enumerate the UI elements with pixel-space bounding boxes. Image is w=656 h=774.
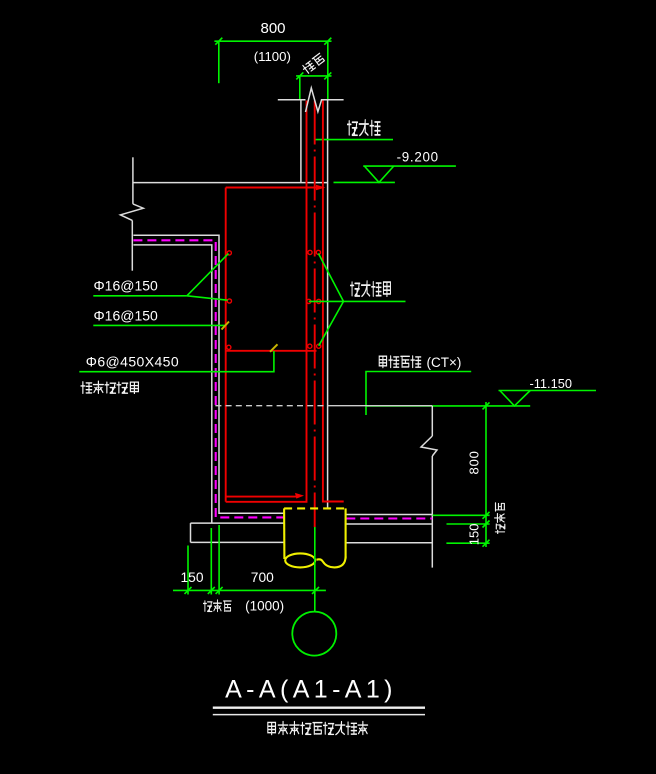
wall top cut line (left of break)	[278, 99, 306, 101]
elevation marker -11.150 symbol	[366, 391, 596, 406]
sump pit right wall (yellow)	[345, 508, 347, 558]
svg-text:800: 800	[260, 20, 285, 37]
rebar section dot (left cage, middle)	[227, 299, 231, 303]
left wall outer face (upper part)	[132, 157, 134, 204]
elevation marker -9.200 symbol	[334, 166, 456, 182]
svg-text:(CT×): (CT×)	[427, 355, 462, 370]
label 墙厚 (rotated)	[301, 53, 325, 74]
wall break zigzag	[306, 88, 322, 112]
rebar cage: top horizontal bar	[226, 187, 318, 189]
left wall break zigzag	[120, 204, 143, 221]
label 剪力墙 (shear wall)	[347, 120, 380, 136]
tie hook tick at end of Φ6 leader	[270, 344, 278, 352]
sump pit left wall (yellow)	[283, 508, 285, 559]
sump pit bottom ellipse (yellow)	[285, 553, 315, 567]
svg-text:A-A(A1-A1): A-A(A1-A1)	[225, 676, 397, 704]
right dimension 800/150: extension at slab top	[433, 514, 490, 516]
base slab top (left of pit)	[191, 522, 284, 524]
waterproof membrane right of pit (magenta dashed)	[346, 517, 432, 519]
label 防水层 (rotated, right side)	[495, 503, 505, 534]
dimension 墙厚: left extension line	[299, 76, 301, 99]
bottom dimension extension line (inner protective face)	[218, 525, 220, 595]
leader of second Φ16@150	[93, 324, 224, 326]
pit floor hidden line (dashed, inside wall)	[215, 405, 327, 407]
right dimension: extension at protective layer	[447, 523, 490, 525]
svg-text:150: 150	[180, 570, 203, 585]
rebar cage: top bar arrowhead	[316, 185, 326, 191]
wall centerline (red dash-dot)	[314, 101, 316, 528]
label 电梯底板 (CT×)	[379, 356, 421, 368]
leader of first Φ16@150	[93, 254, 228, 301]
upper shear wall outer face	[300, 100, 302, 183]
first floor slab top line	[133, 182, 327, 184]
right dimension: extension at slab bottom	[446, 542, 489, 544]
base slab top surface (right of pit)	[346, 514, 432, 516]
rebar section dot (left cage, top)	[227, 251, 231, 255]
pit centerline (green)	[314, 527, 316, 612]
rebar section dots (wall, middle pair)	[307, 299, 311, 303]
svg-text:Φ16@150: Φ16@150	[94, 308, 159, 324]
base slab bottom (left of pit)	[191, 541, 284, 543]
wall top cut line (right of break)	[321, 99, 344, 101]
dimension 800 top: right extension line	[327, 41, 329, 99]
label 剪力墙筋 (shear wall rebar)	[350, 281, 390, 296]
left wall outer face (lower part)	[131, 220, 133, 270]
rebar cage: left vertical bar	[225, 188, 227, 502]
svg-text:Φ16@150: Φ16@150	[94, 278, 159, 294]
leader of 剪力墙筋	[309, 253, 406, 345]
tie hook tick at end of second leader	[222, 322, 230, 330]
svg-text:-9.200: -9.200	[397, 149, 439, 164]
subtitle 用于上部有剪力墙处	[268, 721, 368, 734]
detail bubble circle	[292, 612, 336, 656]
leader of Φ6@450X450	[79, 351, 274, 372]
svg-text:-11.150: -11.150	[530, 376, 572, 391]
sump pit dashed top (yellow)	[284, 507, 346, 509]
title underline thin	[213, 714, 425, 716]
bottom dimension line with ticks	[173, 587, 326, 594]
rebar section dots (wall, top pair)	[308, 250, 312, 254]
bottom dimension extension line (slab edge)	[187, 546, 189, 595]
svg-text:700: 700	[251, 570, 274, 585]
svg-text:800: 800	[466, 450, 481, 474]
rebar cage: outer bottom bar + wall bar A	[226, 101, 307, 502]
dimension 800 top: dim line	[214, 38, 331, 45]
right cut edge vertical with break	[421, 406, 437, 568]
base slab bottom (right of pit)	[346, 542, 432, 544]
waterproof membrane (magenta dashed)	[133, 240, 283, 517]
dimension 墙厚 (wall thickness): dim line	[296, 72, 331, 79]
pit floor line (solid, right of wall)	[328, 405, 433, 407]
upper shear wall inner face	[327, 100, 329, 509]
title underline thick	[213, 707, 425, 709]
bottom dimension extension line (outer face)	[210, 528, 212, 595]
svg-text:Φ6@450X450: Φ6@450X450	[86, 353, 179, 369]
svg-text:(1000): (1000)	[245, 598, 284, 613]
base slab left edge	[190, 523, 192, 542]
svg-text:150: 150	[466, 524, 481, 546]
dimension 800 top: left extension line	[218, 41, 220, 83]
right vertical dimension line	[483, 402, 490, 547]
lower wall outer face inner white line	[133, 245, 211, 523]
leader line of 剪力墙	[315, 139, 393, 141]
svg-text:(1100): (1100)	[254, 49, 291, 64]
lower wall outer protective layer: top	[133, 235, 283, 513]
wall bar B bending right into slab	[323, 101, 344, 502]
rebar section dots (wall, bottom pair)	[308, 344, 312, 348]
label 梅花形设置	[81, 381, 139, 393]
rebar cage: inner bottom bar with arrowhead	[226, 496, 297, 498]
rebar section dot (left cage, bottom)	[227, 345, 231, 349]
label 防水层 (bottom)	[203, 600, 231, 612]
rebar cage: middle horizontal bar	[226, 350, 317, 352]
protective layer line (right of pit)	[346, 523, 432, 525]
leader of 电梯底板	[366, 372, 471, 416]
sump pit right bottom arc (yellow)	[317, 557, 346, 568]
